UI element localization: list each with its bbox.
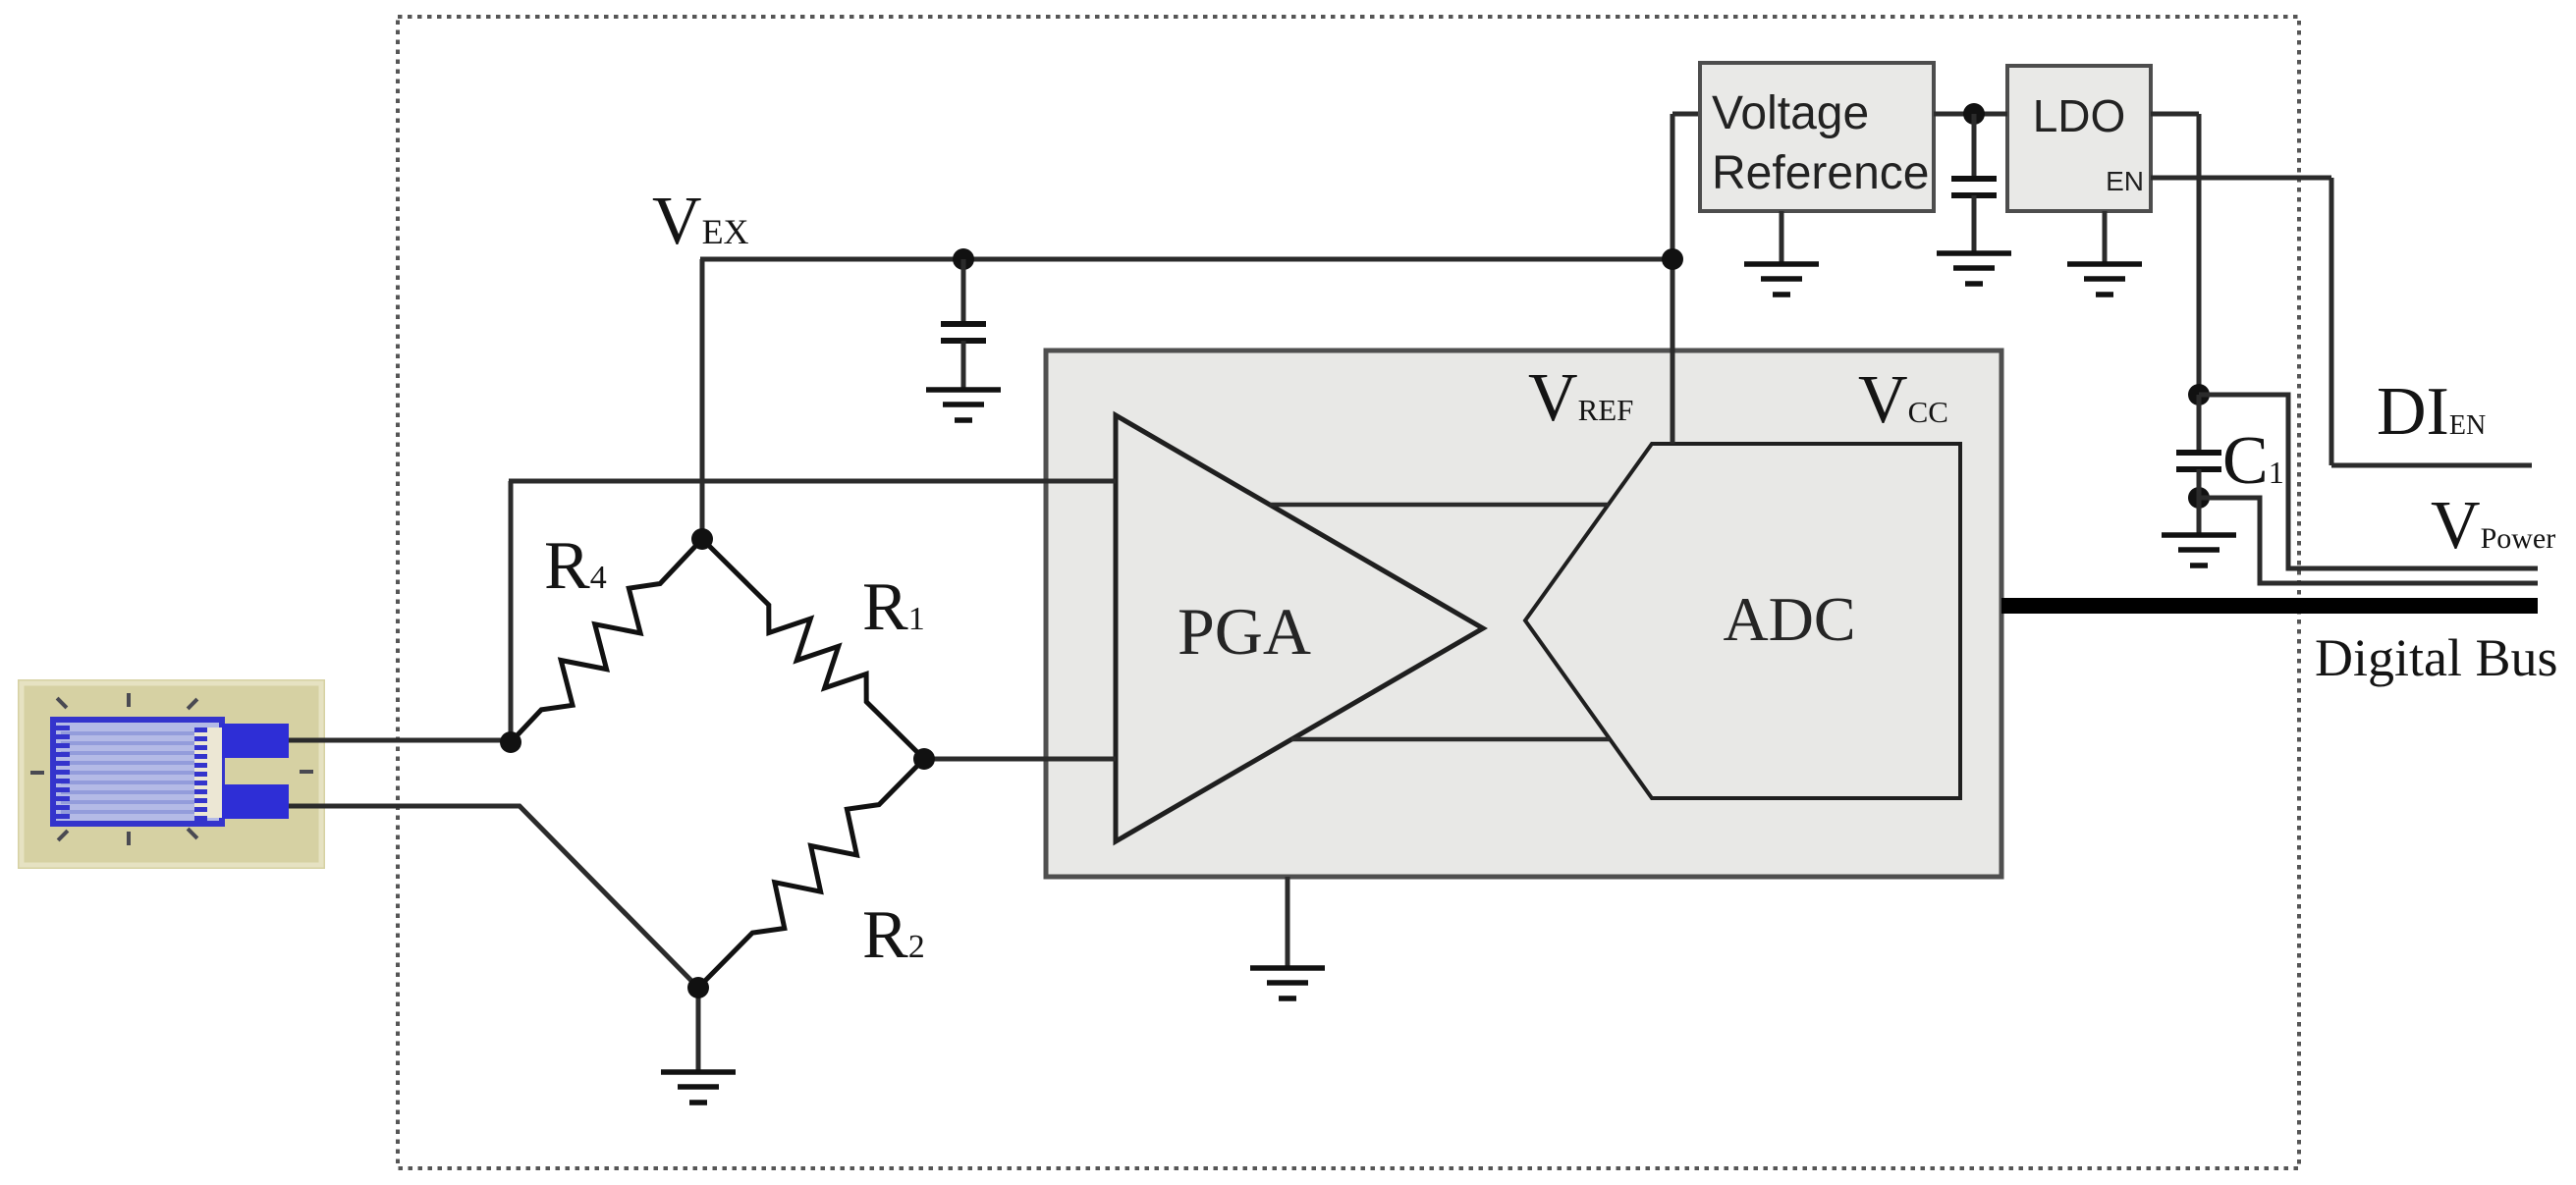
svg-text:ADC: ADC <box>1723 584 1855 654</box>
svg-text:R1: R1 <box>862 569 925 645</box>
svg-text:DIEN: DIEN <box>2377 374 2486 450</box>
svg-text:VEX: VEX <box>652 184 749 259</box>
svg-text:Voltage: Voltage <box>1712 87 1869 139</box>
svg-text:PGA: PGA <box>1178 594 1311 669</box>
svg-text:Digital Bus: Digital Bus <box>2315 628 2558 687</box>
svg-text:R2: R2 <box>862 897 925 973</box>
svg-text:VPower: VPower <box>2431 488 2555 564</box>
svg-text:LDO: LDO <box>2033 90 2126 141</box>
svg-text:EN: EN <box>2106 166 2144 196</box>
svg-text:Reference: Reference <box>1712 147 1929 199</box>
svg-text:C1: C1 <box>2222 423 2284 499</box>
svg-text:R4: R4 <box>544 528 607 604</box>
